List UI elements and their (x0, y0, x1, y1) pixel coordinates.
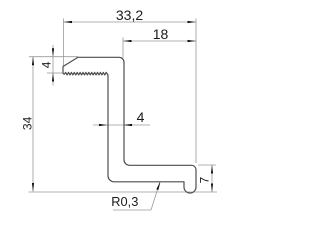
svg-text:33,2: 33,2 (116, 7, 143, 23)
svg-text:4: 4 (137, 109, 145, 125)
svg-text:R0,3: R0,3 (111, 194, 138, 209)
svg-text:7: 7 (197, 177, 211, 184)
svg-text:4: 4 (39, 61, 53, 68)
svg-text:34: 34 (21, 116, 35, 130)
svg-text:18: 18 (153, 26, 169, 42)
